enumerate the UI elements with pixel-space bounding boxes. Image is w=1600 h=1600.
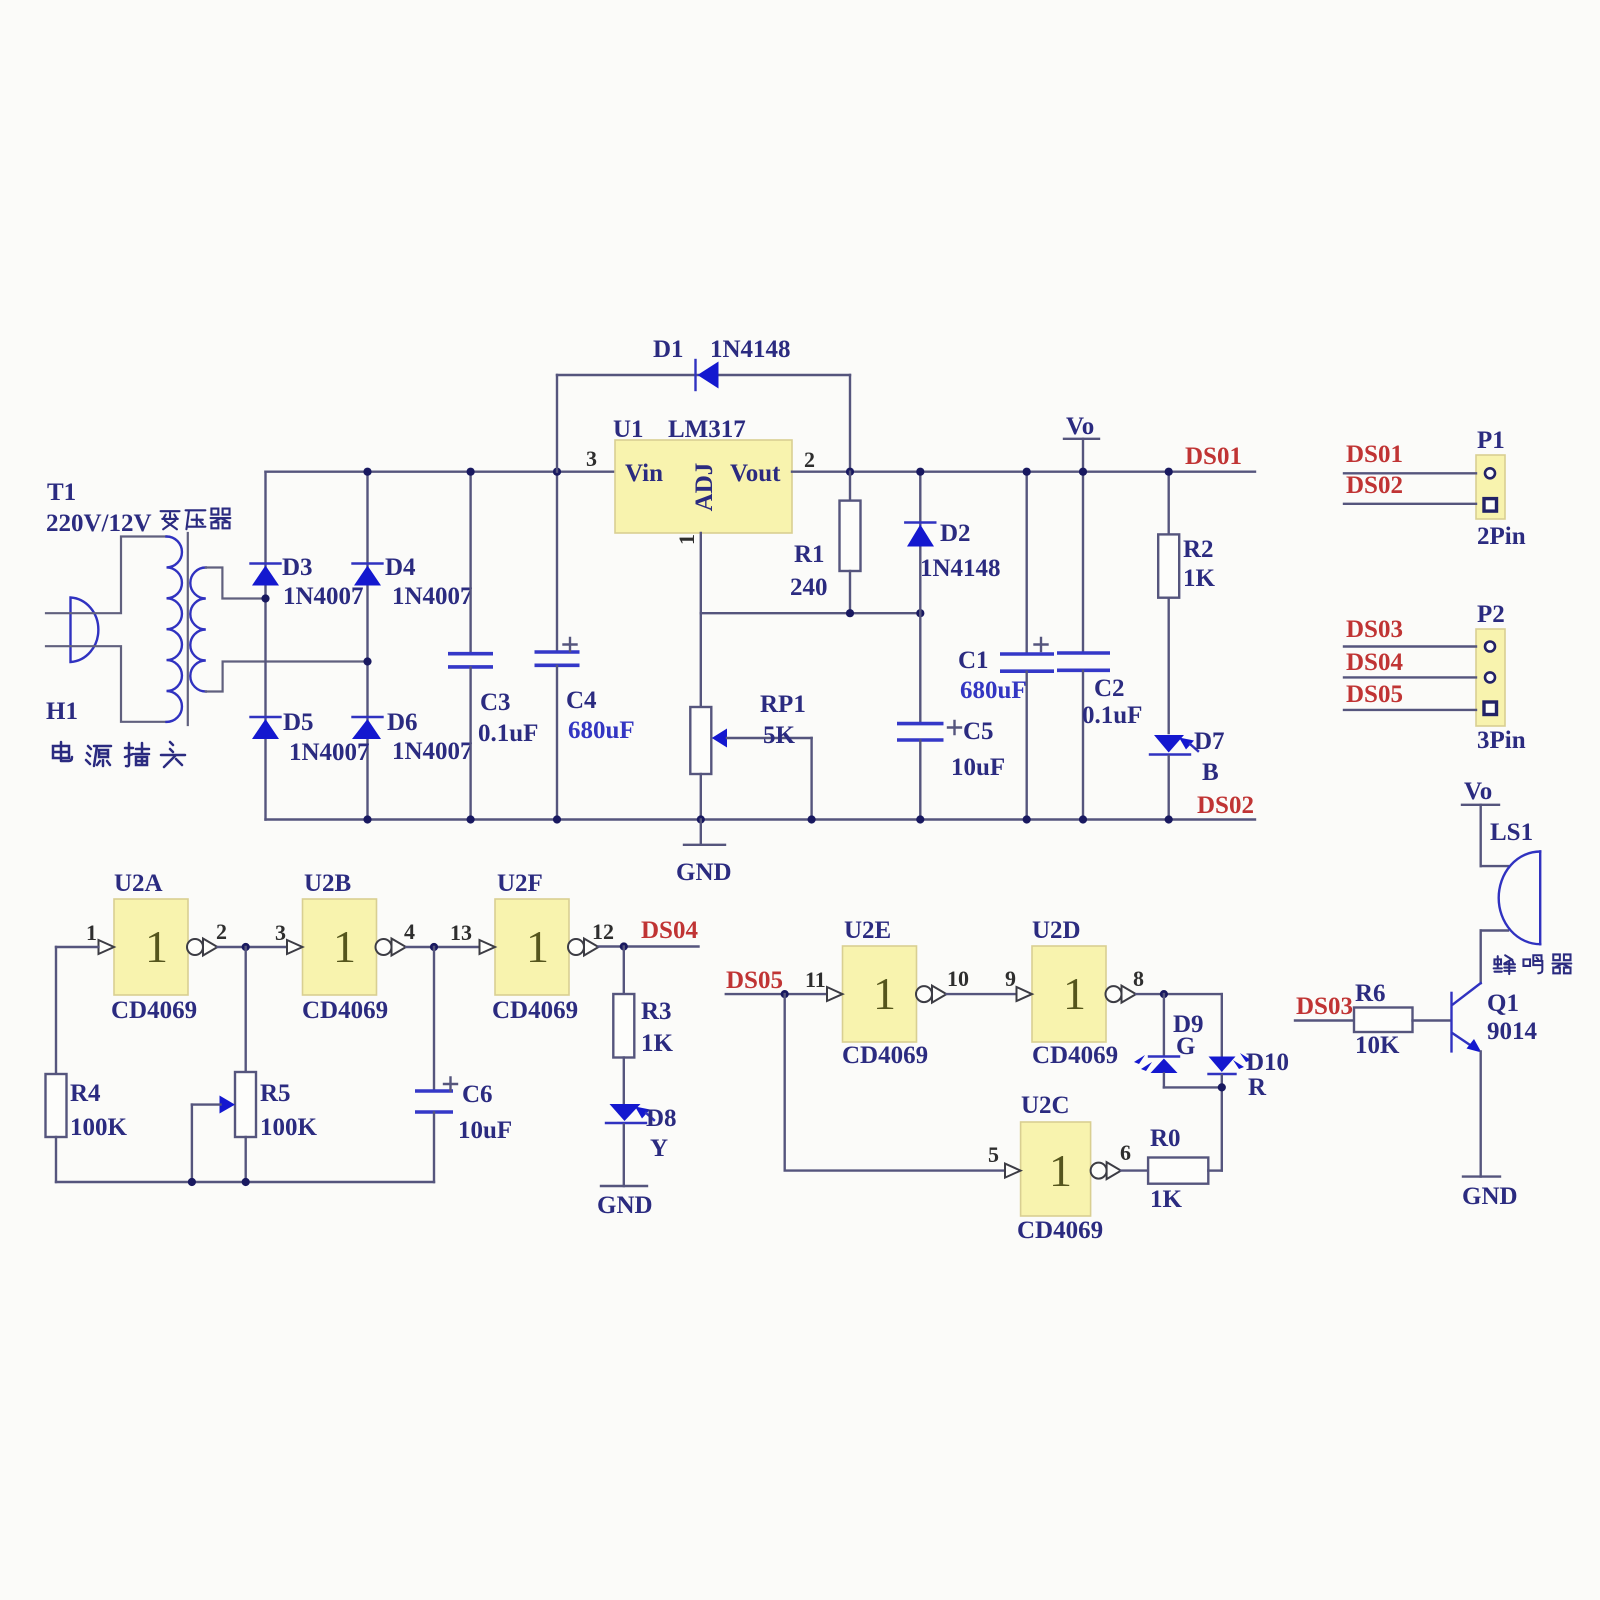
wire DS05 to P2 pin3	[1344, 709, 1476, 711]
ground GND main	[676, 820, 732, 887]
svg-text:10uF: 10uF	[951, 754, 1005, 781]
svg-text:5: 5	[988, 1142, 999, 1167]
svg-text:3: 3	[275, 920, 286, 945]
capacitor C6	[415, 947, 512, 1182]
potentiometer R5	[192, 947, 318, 1182]
svg-text:1: 1	[333, 921, 356, 972]
inverter U2A	[99, 870, 218, 1024]
svg-text:DS04: DS04	[1346, 649, 1403, 676]
svg-text:2: 2	[216, 919, 227, 944]
wire U2E out to U2D in	[947, 993, 1017, 995]
junction R1 bottom	[846, 609, 854, 617]
svg-text:Vo: Vo	[1066, 413, 1094, 440]
svg-text:8: 8	[1133, 966, 1144, 991]
svg-text:Y: Y	[650, 1135, 668, 1162]
svg-text:DS01: DS01	[1185, 443, 1242, 470]
T1 primary winding	[167, 537, 182, 722]
wire D1 bypass top	[557, 374, 850, 376]
wire secondary bottom to bridge	[206, 662, 368, 692]
svg-text:R4: R4	[70, 1080, 101, 1107]
node Vo top	[1064, 413, 1099, 472]
diode D1	[653, 336, 791, 390]
wire buzzer bottom lead	[1481, 929, 1508, 931]
SECTION: oscillator bottom-left	[46, 870, 699, 1219]
svg-text:220V/12V: 220V/12V	[46, 510, 152, 537]
svg-text:R3: R3	[641, 998, 672, 1025]
node Vo buzzer	[1462, 778, 1499, 805]
wire U2C out to R0	[1121, 1169, 1148, 1171]
diode D3	[251, 554, 364, 610]
resistor R0	[1148, 1125, 1208, 1213]
capacitor C4	[535, 472, 635, 820]
junction secondary bottom	[363, 657, 371, 665]
svg-text:Q1: Q1	[1487, 990, 1519, 1017]
capacitor C5	[897, 613, 1005, 819]
svg-text:C2: C2	[1094, 675, 1125, 702]
junction R3 top	[620, 942, 628, 950]
junction R2 top	[1165, 468, 1173, 476]
wire DS05 to U2E	[726, 993, 827, 995]
svg-text:D3: D3	[282, 554, 313, 581]
junction D2 top	[916, 468, 924, 476]
junction bottom RP1 wiper	[808, 815, 816, 823]
wire output bus	[792, 471, 1255, 473]
wire DS01 to P1 pin1	[1344, 472, 1476, 474]
svg-text:D10: D10	[1246, 1049, 1289, 1076]
transistor Q1	[1452, 983, 1538, 1052]
wire U2F out to DS04	[599, 945, 699, 947]
capacitor C1	[958, 472, 1054, 820]
svg-text:DS02: DS02	[1346, 472, 1403, 499]
svg-text:1K: 1K	[1183, 565, 1216, 592]
capacitor C2	[1057, 472, 1142, 820]
svg-text:1: 1	[873, 968, 896, 1019]
svg-text:0.1uF: 0.1uF	[1082, 702, 1142, 729]
svg-text:Vout: Vout	[730, 460, 781, 487]
svg-text:4: 4	[404, 919, 415, 944]
label 电源插头	[53, 742, 185, 767]
junction bottom GND	[697, 815, 705, 823]
svg-text:D7: D7	[1194, 728, 1225, 755]
svg-text:CD4069: CD4069	[1032, 1042, 1118, 1069]
svg-text:CD4069: CD4069	[492, 997, 578, 1024]
junction Vout node	[846, 468, 854, 476]
connector P1	[1476, 427, 1526, 550]
svg-text:B: B	[1202, 759, 1219, 786]
svg-text:D1: D1	[653, 336, 684, 363]
junction R5 top	[242, 943, 250, 951]
wire emitter down	[1479, 1051, 1481, 1176]
wire DS03 to R6	[1295, 1019, 1354, 1021]
junction C6 top	[430, 943, 438, 951]
svg-text:U2A: U2A	[114, 870, 163, 897]
wire D9 bottom to D10 column	[1164, 1086, 1222, 1088]
svg-text:R6: R6	[1355, 980, 1386, 1007]
svg-text:1N4007: 1N4007	[392, 583, 473, 610]
buzzer LS1	[1490, 819, 1540, 944]
svg-text:LM317: LM317	[668, 416, 746, 443]
wire U2D out to LEDs	[1136, 993, 1222, 995]
wire secondary top to bridge	[206, 568, 266, 599]
svg-text:D5: D5	[283, 709, 314, 736]
SECTION: power supply top	[46, 336, 1526, 886]
wire DS03 to P2 pin1	[1344, 645, 1476, 647]
resistor R2	[1158, 472, 1215, 733]
svg-text:DS02: DS02	[1197, 792, 1254, 819]
svg-text:10: 10	[947, 966, 969, 991]
svg-text:5K: 5K	[763, 722, 796, 749]
junction secondary top	[261, 594, 269, 602]
svg-text:U2D: U2D	[1032, 917, 1081, 944]
svg-text:1: 1	[86, 920, 97, 945]
svg-text:1: 1	[145, 921, 168, 972]
transformer T1	[167, 533, 206, 725]
resistor R6	[1354, 980, 1413, 1059]
svg-text:1: 1	[674, 534, 699, 545]
svg-text:100K: 100K	[260, 1114, 318, 1141]
wire ADJ pin down	[700, 533, 702, 613]
potentiometer RP1	[690, 613, 811, 819]
svg-text:D4: D4	[385, 554, 416, 581]
wire top bus	[266, 471, 616, 473]
svg-text:1K: 1K	[641, 1030, 674, 1057]
svg-text:DS03: DS03	[1296, 993, 1353, 1020]
svg-text:RP1: RP1	[760, 691, 806, 718]
svg-text:DS03: DS03	[1346, 616, 1403, 643]
svg-text:680uF: 680uF	[568, 717, 635, 744]
svg-text:1: 1	[1063, 968, 1086, 1019]
svg-text:1: 1	[526, 921, 549, 972]
junction bottom R5	[242, 1178, 250, 1186]
svg-text:DS04: DS04	[641, 917, 698, 944]
svg-text:C1: C1	[958, 647, 989, 674]
svg-text:0.1uF: 0.1uF	[478, 720, 538, 747]
svg-text:C6: C6	[462, 1081, 493, 1108]
wire D1 bypass right riser	[849, 375, 851, 472]
diode D2	[905, 472, 1000, 614]
junction bottom R2	[1165, 815, 1173, 823]
plug H1	[71, 598, 99, 663]
wire DS02 to P1 pin2	[1344, 503, 1476, 505]
wire U2A input	[56, 946, 99, 948]
junction bottom R5 wiper	[188, 1178, 196, 1186]
LED D8	[606, 1104, 677, 1186]
svg-text:D2: D2	[940, 520, 971, 547]
svg-text:G: G	[1176, 1033, 1195, 1060]
svg-text:DS05: DS05	[726, 967, 783, 994]
LED D7	[1150, 728, 1225, 820]
svg-text:GND: GND	[1462, 1183, 1518, 1210]
SECTION: led driver bottom-middle	[726, 917, 1289, 1244]
svg-text:1N4148: 1N4148	[710, 336, 791, 363]
junction C1 top	[1023, 468, 1031, 476]
svg-text:100K: 100K	[70, 1114, 128, 1141]
svg-text:1N4007: 1N4007	[283, 583, 364, 610]
svg-text:1: 1	[1049, 1145, 1072, 1196]
inverter U2F	[480, 870, 599, 1024]
ground GND R3 chain	[597, 1186, 653, 1219]
svg-text:CD4069: CD4069	[1017, 1217, 1103, 1244]
inverter U2D	[1017, 917, 1137, 1069]
junction D10 bottom	[1218, 1083, 1226, 1091]
T1 secondary winding	[190, 568, 206, 692]
SECTION: buzzer bottom-right	[1295, 778, 1571, 1210]
junction bottom C3	[467, 815, 475, 823]
svg-text:10uF: 10uF	[458, 1117, 512, 1144]
svg-text:1N4148: 1N4148	[920, 555, 1001, 582]
wire DS05 down to U2C	[785, 994, 1005, 1171]
svg-text:Vo: Vo	[1464, 778, 1492, 805]
ground GND Q1	[1462, 1177, 1518, 1210]
junction bottom C1	[1023, 815, 1031, 823]
wire H1 bottom prong	[46, 646, 167, 722]
wire oscillator bottom	[56, 1181, 434, 1183]
svg-text:C3: C3	[480, 689, 511, 716]
svg-text:D8: D8	[646, 1105, 677, 1132]
wire U2A out to U2B in	[218, 946, 288, 948]
diode D5	[251, 709, 370, 766]
svg-text:U2C: U2C	[1021, 1092, 1070, 1119]
junction D9 top	[1160, 990, 1168, 998]
svg-text:U2B: U2B	[304, 870, 351, 897]
svg-text:T1: T1	[47, 479, 76, 506]
svg-text:U1: U1	[613, 416, 644, 443]
svg-text:1N4007: 1N4007	[289, 739, 370, 766]
wire U2B out to U2F in	[406, 946, 480, 948]
svg-text:R1: R1	[794, 541, 825, 568]
svg-text:13: 13	[450, 920, 472, 945]
svg-text:R2: R2	[1183, 536, 1214, 563]
junction bottom C2	[1079, 815, 1087, 823]
svg-text:C4: C4	[566, 687, 597, 714]
wire buzzer top lead	[1481, 865, 1508, 867]
svg-text:DS05: DS05	[1346, 681, 1403, 708]
inverter U2E	[827, 917, 947, 1069]
wire Vo down	[1479, 805, 1481, 866]
wire collector	[1479, 931, 1481, 984]
T1 core	[187, 533, 189, 725]
wire H1 top prong	[46, 537, 167, 614]
resistor R4	[46, 947, 128, 1182]
wire D1 bypass left riser	[556, 375, 558, 472]
svg-text:DS01: DS01	[1346, 441, 1403, 468]
svg-text:9014: 9014	[1487, 1018, 1538, 1045]
svg-text:P1: P1	[1477, 427, 1505, 454]
inverter U2B	[287, 870, 406, 1024]
svg-text:C5: C5	[963, 718, 994, 745]
capacitor C3	[448, 472, 538, 820]
resistor R1	[790, 472, 861, 614]
svg-text:1K: 1K	[1150, 1186, 1183, 1213]
svg-text:H1: H1	[46, 698, 78, 725]
op-amp U1 LM317 body	[613, 416, 792, 533]
LED D10	[1209, 994, 1290, 1171]
svg-text:U2F: U2F	[497, 870, 543, 897]
wire bridge left column	[264, 472, 266, 820]
svg-text:P2: P2	[1477, 601, 1505, 628]
junction C3 top	[467, 468, 475, 476]
svg-text:R: R	[1248, 1074, 1267, 1101]
wire DS04 to P2 pin2	[1344, 676, 1476, 678]
wire R0 right to D10 column	[1208, 1169, 1222, 1171]
svg-text:GND: GND	[676, 859, 732, 886]
svg-text:240: 240	[790, 574, 828, 601]
svg-text:12: 12	[592, 919, 614, 944]
junction Vo node	[1079, 468, 1087, 476]
svg-text:R5: R5	[260, 1080, 291, 1107]
LED D9	[1134, 994, 1204, 1087]
junction ADJ D2	[916, 609, 924, 617]
svg-text:2: 2	[804, 447, 815, 472]
svg-text:U2E: U2E	[844, 917, 891, 944]
junction DS05 branch	[781, 990, 789, 998]
svg-text:D6: D6	[387, 709, 418, 736]
svg-text:2Pin: 2Pin	[1477, 523, 1526, 550]
wire bridge right column	[366, 472, 368, 820]
svg-text:ADJ: ADJ	[691, 463, 718, 512]
svg-text:LS1: LS1	[1490, 819, 1533, 846]
wire bottom bus	[266, 818, 1256, 820]
svg-text:GND: GND	[597, 1192, 653, 1219]
junction bottom C4	[553, 815, 561, 823]
svg-text:10K: 10K	[1355, 1032, 1400, 1059]
resistor R3	[613, 947, 673, 1104]
junction C4 top	[553, 468, 561, 476]
svg-text:680uF: 680uF	[960, 677, 1027, 704]
svg-text:CD4069: CD4069	[111, 997, 197, 1024]
inverter U2C	[1005, 1092, 1121, 1244]
junction bottom D4	[363, 815, 371, 823]
diode D4	[353, 554, 473, 610]
wire ADJ horizontal	[701, 612, 921, 614]
svg-text:R0: R0	[1150, 1125, 1181, 1152]
junction bottom C5	[916, 815, 924, 823]
svg-text:3: 3	[586, 446, 597, 471]
svg-text:6: 6	[1120, 1140, 1131, 1165]
svg-text:CD4069: CD4069	[842, 1042, 928, 1069]
svg-text:1N4007: 1N4007	[392, 738, 473, 765]
wire R6 to base	[1413, 1019, 1450, 1021]
svg-text:11: 11	[805, 967, 826, 992]
svg-text:Vin: Vin	[625, 460, 663, 487]
svg-text:3Pin: 3Pin	[1477, 727, 1526, 754]
svg-text:9: 9	[1005, 966, 1016, 991]
connector P2	[1476, 601, 1526, 754]
label 蜂鸣器	[1494, 954, 1572, 974]
svg-text:CD4069: CD4069	[302, 997, 388, 1024]
junction bridge right top	[363, 468, 371, 476]
diode D6	[352, 709, 473, 765]
